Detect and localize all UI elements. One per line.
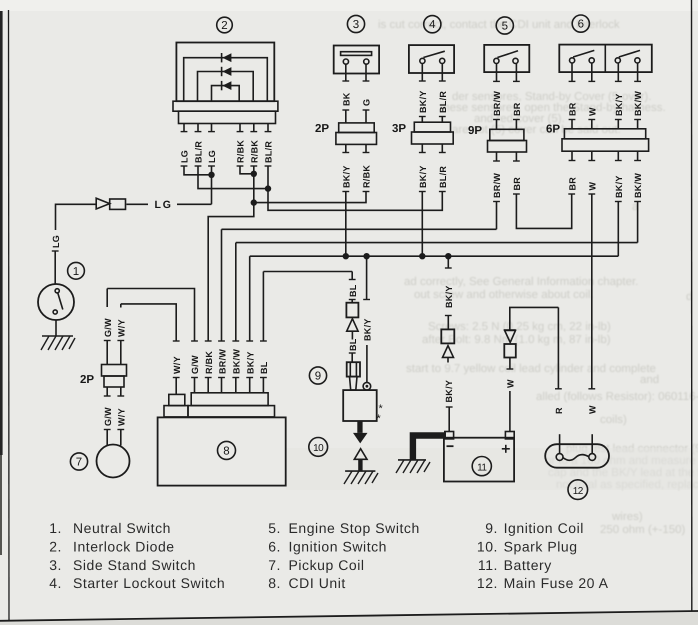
pin G below box (363, 64, 370, 81)
junction BK/Y battery branch (445, 253, 451, 259)
wire pin6 BL/R down, right to 3P connector (265, 166, 443, 210)
pin G/W below 2P (104, 387, 111, 396)
diode loop 3 wire (212, 86, 240, 102)
wire BR to 6P (569, 120, 576, 129)
wire BL/R stub to bus (tick) (439, 191, 446, 193)
svg-text:W: W (587, 107, 597, 116)
wire pin4 R/BK down-right to pin5 (237, 166, 254, 174)
svg-text:Neutral Switch: Neutral Switch (73, 520, 171, 536)
ignition coil body (343, 390, 377, 421)
svg-text:Main Fuse 20 A: Main Fuse 20 A (504, 575, 609, 591)
pin W below 6P (588, 151, 595, 160)
junction pin5 R/BK bus (251, 199, 257, 205)
arrow symbol on LG wire (96, 198, 110, 209)
svg-text:8: 8 (223, 446, 229, 458)
neutral switch contact bottom (53, 310, 57, 314)
connector box on BL (346, 303, 358, 318)
svg-text:12: 12 (573, 486, 584, 497)
svg-text:6: 6 (578, 19, 584, 31)
connector 6P lower (562, 139, 649, 151)
pin BKY below 6P (615, 151, 622, 160)
bus BK/W CDI pin5 to 6P (236, 242, 638, 244)
wire switch to ground (55, 320, 57, 336)
svg-text:R/BK: R/BK (362, 165, 372, 188)
CDI small connector base (164, 406, 188, 417)
connector 6P upper (564, 129, 645, 139)
battery minus post (445, 432, 454, 439)
pin BK below box (342, 64, 349, 81)
wire LG text to box (126, 203, 148, 205)
svg-text:10.: 10. (477, 539, 498, 555)
ign blade right cell (619, 50, 640, 57)
svg-text:4.: 4. (49, 575, 62, 591)
starter lockout box (409, 45, 454, 73)
svg-text:2: 2 (221, 20, 227, 32)
svg-text:Starter Lockout Switch: Starter Lockout Switch (73, 575, 225, 591)
plug ground stub (358, 459, 362, 471)
ign contact 1 (570, 58, 575, 63)
ign contact 3 (615, 58, 620, 63)
legend column 3 (477, 520, 609, 591)
wire BK/Y to connector box (445, 316, 452, 330)
diode pin 1 stub (181, 124, 188, 132)
side stand contact bar (341, 52, 372, 56)
connector 3P lower (412, 132, 454, 144)
wire pin1 LG down-right to pin3 (181, 166, 212, 175)
connector 3P upper (414, 122, 450, 132)
svg-text:R/BK: R/BK (204, 351, 214, 374)
neutral switch contact top (55, 289, 59, 293)
wire BL down from bus (349, 272, 356, 280)
connector box on LG wire (110, 199, 126, 209)
svg-text:start to 9.7 yellow coil lead: start to 9.7 yellow coil lead cylinder a… (406, 363, 656, 375)
ignition switch box (559, 45, 652, 73)
svg-text:BL: BL (259, 361, 269, 374)
ignition switch divider (604, 45, 606, 73)
svg-text:W/Y: W/Y (116, 319, 126, 337)
neutral switch body circle (38, 284, 74, 320)
connector 9P upper (490, 129, 524, 140)
connector 2P lower (336, 133, 377, 145)
svg-text:BR: BR (512, 102, 522, 116)
border frame bottom line (0, 611, 698, 621)
pin BKW below 6P (634, 151, 641, 160)
diode pin 3 stub (208, 124, 215, 132)
engine stop blade (497, 51, 518, 58)
circled ref 8 (218, 441, 236, 459)
wire LG from pin3 left to arrow symbol (177, 203, 212, 205)
svg-text:G/W: G/W (103, 407, 113, 426)
interlock diode connector bar lower (179, 111, 276, 123)
pin W/Y below 2P (117, 387, 124, 396)
svg-text:BK/Y: BK/Y (363, 318, 373, 341)
diode pin 5 stub (250, 124, 257, 132)
diode on BK/Y (443, 346, 454, 358)
svg-text:Pickup Coil: Pickup Coil (289, 557, 365, 573)
circled ref 12 (568, 480, 588, 500)
pin BKY below box (615, 63, 622, 81)
svg-text:250 ohm (+-150): 250 ohm (+-150) (600, 524, 686, 536)
svg-text:wires): wires) (611, 511, 643, 523)
CDI pin ticks above labels (173, 340, 267, 342)
diode on BL wire (347, 319, 358, 340)
svg-text:3P: 3P (392, 123, 406, 135)
junction pin1/pin3 (208, 172, 214, 178)
diode pin 2 stub (195, 124, 202, 132)
starter lockout contact right (440, 58, 445, 63)
svg-text:BK/W: BK/W (633, 91, 643, 116)
svg-text:4: 4 (429, 19, 436, 31)
circled ref 11 (472, 457, 491, 476)
svg-text:BK: BK (341, 92, 351, 106)
svg-text:7: 7 (76, 457, 82, 469)
wire W/Y horizontal to CDI pin1 (121, 304, 176, 341)
svg-text:LG: LG (51, 235, 61, 248)
diode on W (points down) (504, 330, 516, 342)
legend column 2 (268, 520, 420, 591)
svg-text:and: and (640, 374, 659, 386)
wire BK/Y down corner left (bus to CDI) (615, 202, 622, 257)
circled ref 9 (309, 367, 326, 384)
svg-text:12.: 12. (477, 575, 498, 591)
svg-text:1: 1 (73, 266, 79, 278)
svg-text:LG: LG (155, 199, 173, 211)
svg-text:BK/Y: BK/Y (418, 90, 428, 113)
wire pin2 BL/R down-right to pin6 (195, 166, 268, 189)
wire BL/R to 3P (439, 117, 446, 123)
svg-text:ad correctly, See General Info: ad correctly, See General Information ch… (404, 276, 638, 288)
side stand terminal left (343, 59, 348, 64)
svg-text:G: G (362, 99, 372, 106)
wire G/W down to label (106, 289, 108, 308)
wire CDI pin7 vertical (262, 272, 264, 342)
interlock diode outer box (176, 43, 274, 102)
circled ref 4 (424, 16, 441, 33)
junction BK/Y sidestand on bus (343, 253, 349, 259)
scan page left dark edge (0, 0, 3, 455)
svg-text:BL/R: BL/R (438, 91, 448, 113)
svg-text:alled (follows Resistor): 0601: alled (follows Resistor): 060116-20 (536, 391, 698, 403)
wire BR/W to 9P (493, 120, 500, 130)
pin R/BK below 2P (363, 144, 370, 152)
wire W/Y to coil (117, 430, 124, 446)
svg-text:R/BK: R/BK (236, 140, 246, 163)
svg-text:BK/Y: BK/Y (614, 175, 624, 198)
circled ref 1 (68, 262, 85, 279)
circled ref 5 (496, 17, 513, 34)
svg-text:7.: 7. (268, 557, 281, 573)
junction BK/Y lockout on bus (419, 253, 425, 259)
svg-text:3: 3 (353, 19, 359, 31)
svg-text:BL: BL (348, 338, 358, 351)
wire pin3 LG down (208, 166, 215, 204)
engine stop contact left (494, 58, 499, 63)
ign contact 4 (635, 58, 640, 63)
wire BL to plug cap (349, 353, 356, 362)
svg-text:CDI Unit: CDI Unit (289, 575, 346, 591)
interlock diode connector bar upper (173, 101, 278, 111)
svg-text:BK/Y: BK/Y (614, 93, 624, 116)
svg-text:Interlock Diode: Interlock Diode (73, 539, 175, 555)
connector 2P upper (339, 123, 375, 133)
svg-text:5: 5 (502, 21, 508, 33)
pin BR below box (513, 64, 520, 82)
border frame left line (8, 10, 11, 620)
wire BK/W down corner left (bus to CDI) (634, 202, 641, 243)
circled ref 10 (309, 438, 328, 457)
battery box (444, 438, 514, 482)
connector 2P pickup upper (102, 365, 127, 377)
diode pin 6 stub (265, 124, 272, 132)
side stand terminal right (364, 59, 369, 64)
wire BK/Y to 3P (419, 117, 426, 123)
svg-text:BR/W: BR/W (492, 173, 502, 198)
starter lockout blade (423, 51, 444, 57)
pin BL/R below box (439, 64, 446, 81)
svg-text:*: * (377, 413, 382, 425)
svg-text:BK/W: BK/W (231, 349, 241, 374)
wire BKW to 6P (634, 120, 641, 129)
pin BK/Y below 3P (419, 144, 426, 153)
wire BR to 9P (513, 120, 520, 130)
svg-text:W/Y: W/Y (116, 408, 126, 426)
diode D3 (222, 81, 232, 90)
starter lockout contact left (420, 58, 425, 63)
pin BR below 9P (513, 152, 520, 161)
faint lighter band top of page (0, 0, 698, 11)
ground battery (396, 460, 430, 473)
wire BK/Y from bus to coil terminal (363, 256, 370, 299)
wire R/BK down then left to diode junction (254, 192, 370, 203)
wire BKY to 6P (615, 120, 622, 129)
svg-text:6P: 6P (546, 124, 560, 136)
svg-text:BR: BR (568, 177, 578, 191)
svg-text:6.: 6. (268, 539, 281, 555)
svg-text:8.: 8. (268, 575, 281, 591)
bus BL CDI pin7 to ignition coil (263, 271, 352, 273)
CDI main connector base (188, 406, 275, 417)
junction pin4/pin5 (251, 171, 257, 177)
coil HT stub (357, 421, 362, 433)
border frame right line (691, 0, 693, 611)
wire BL to connector box (349, 300, 356, 303)
ign contact 2 (589, 58, 594, 63)
connector box on BK/Y (441, 329, 454, 343)
svg-text:BR: BR (512, 177, 522, 191)
wire BK/Y down to bus (342, 192, 349, 257)
ground neutral switch (41, 336, 75, 350)
pin BL/R below 3P (439, 144, 446, 153)
svg-text:W: W (587, 182, 597, 191)
wire W to 6P (588, 120, 595, 129)
svg-text:9.: 9. (485, 520, 498, 536)
legend column 1 (49, 520, 225, 591)
svg-text:11.: 11. (478, 557, 498, 573)
connector box on W (504, 344, 516, 358)
svg-text:2.: 2. (49, 539, 62, 555)
svg-text:W: W (588, 405, 598, 414)
wire W/Y to 2P (117, 341, 124, 365)
svg-text:5.: 5. (268, 520, 281, 536)
diode D1 (222, 53, 232, 62)
circled ref 2 (217, 17, 233, 33)
circled ref 7 (70, 453, 87, 470)
svg-text:2P: 2P (80, 374, 94, 386)
pin W below box (588, 63, 595, 81)
wire W long down to fuse (588, 194, 595, 389)
plug cap double box (347, 362, 360, 376)
wire CDI pin5 vertical (235, 243, 237, 341)
svg-text:1.: 1. (49, 520, 62, 536)
wire BK/Y into battery minus post (446, 407, 453, 432)
engine stop contact right (513, 58, 518, 63)
wire BK/Y down from bus (445, 256, 452, 268)
svg-text:BK/Y: BK/Y (245, 351, 255, 374)
battery ground thick wire (413, 436, 446, 460)
svg-text:G/W: G/W (103, 318, 113, 337)
battery minus sign (447, 445, 454, 447)
svg-text:Battery: Battery (504, 557, 552, 573)
svg-text:9P: 9P (468, 125, 482, 137)
pin BR/W below 9P (493, 152, 500, 161)
wire G/W to coil (104, 430, 111, 446)
wire G to 2P (363, 110, 370, 123)
wire BR/W down to BRW bus corner (493, 202, 500, 230)
side stand switch box (334, 46, 379, 74)
fuse terminal left (556, 454, 563, 461)
svg-text:BK/Y: BK/Y (444, 285, 454, 308)
svg-text:10: 10 (313, 443, 324, 454)
battery plus sign (502, 445, 510, 453)
faint gray band lower CDI area (286, 448, 698, 490)
fuse element squiggle (563, 455, 589, 461)
wire BK/Y down to bus junction (419, 192, 426, 257)
svg-text:9: 9 (315, 371, 321, 383)
diode loop 1 wire (184, 58, 268, 101)
wire BK to 2P (342, 110, 349, 123)
stub into coil (350, 377, 358, 391)
svg-text:out screw and otherwise about: out screw and otherwise about coil. (414, 289, 594, 301)
svg-text:Screws: 2.5 N (0.25 kg cm, 22: Screws: 2.5 N (0.25 kg cm, 22 in-lb) (428, 321, 611, 333)
svg-text:BL/R: BL/R (194, 141, 204, 163)
plug electrode triangle up (354, 449, 367, 460)
svg-text:G/W: G/W (190, 355, 200, 374)
connector 2P pickup lower (104, 376, 124, 387)
wire W into fuse (591, 434, 593, 453)
pin BR/W below box (493, 64, 500, 82)
svg-text:BR/W: BR/W (217, 349, 227, 374)
junction BK/Y coil on bus (363, 253, 369, 259)
svg-text:Ignition Coil: Ignition Coil (504, 520, 584, 536)
svg-text:BK/Y: BK/Y (444, 380, 454, 403)
diode pin 4 stub (237, 124, 244, 132)
svg-text:R: R (554, 407, 564, 414)
svg-text:BK/W: BK/W (633, 173, 643, 198)
svg-text:BL/R: BL/R (264, 141, 274, 163)
wire pin5 R/BK down, jog left, down to CDI pin3 (208, 166, 257, 341)
wire R into fuse (559, 434, 561, 453)
wire W/Y down to label (120, 304, 122, 308)
CDI main connector (191, 393, 268, 406)
wire G/W horizontal to CDI pin2 (107, 289, 194, 342)
wire R down to fuse (555, 307, 562, 388)
svg-text:Ignition Switch: Ignition Switch (289, 539, 388, 555)
HT electrode triangle down (353, 433, 368, 444)
wire LG left and down to neutral switch (56, 204, 97, 230)
diode D2 (222, 67, 232, 76)
svg-text:BK/Y: BK/Y (418, 165, 428, 188)
diode loop 2 wire (198, 72, 254, 102)
pin BR below 6P (569, 151, 576, 160)
wire W from corner down (510, 307, 559, 330)
engine stop box (484, 45, 529, 72)
svg-text:Engine Stop Switch: Engine Stop Switch (289, 520, 420, 536)
fuse terminal right (589, 454, 596, 461)
neutral switch blade (58, 293, 63, 310)
wire W into battery plus post (509, 391, 511, 432)
svg-text:2P: 2P (315, 123, 329, 135)
svg-text:W: W (506, 379, 516, 388)
pickup coil body circle (97, 445, 130, 478)
svg-text:Spark Plug: Spark Plug (504, 539, 578, 555)
circled ref 6 (572, 15, 589, 32)
svg-text:BR/W: BR/W (492, 91, 502, 116)
svg-text:LG: LG (180, 150, 190, 163)
svg-text:3.: 3. (49, 557, 62, 573)
connector 9P lower (488, 141, 527, 153)
pin BK/Y below 2P (342, 144, 349, 152)
svg-text:BR: BR (568, 102, 578, 116)
svg-text:BL/R: BL/R (438, 166, 448, 188)
svg-text:R/BK: R/BK (249, 140, 259, 163)
circled ref 3 (347, 15, 364, 32)
svg-text:Side Stand Switch: Side Stand Switch (73, 557, 196, 573)
scan dark blob top-right corner (691, 0, 698, 6)
wire CDI pin4 vertical (221, 229, 223, 341)
CDI small connector (169, 394, 185, 405)
bus BR/W CDI pin4 to 9P (222, 228, 497, 230)
wire BR down right up link to ignition switch BR (513, 194, 575, 228)
svg-text:W/Y: W/Y (172, 356, 182, 374)
pin BKW below box (634, 63, 641, 81)
svg-text:LG: LG (207, 150, 217, 163)
wire G/W to 2P (104, 341, 111, 365)
svg-text:BK/Y: BK/Y (341, 165, 351, 188)
ground spark plug (344, 471, 378, 484)
main fuse body (545, 444, 609, 468)
wire BK/Y label to terminal (366, 345, 368, 382)
battery plus post (505, 432, 514, 439)
wire CDI pin6 vertical (249, 256, 251, 341)
CDI unit box (158, 417, 286, 485)
svg-text:BL: BL (348, 284, 358, 297)
wire W below box (507, 358, 514, 370)
svg-text:coils): coils) (600, 414, 627, 426)
ign blade left cell (573, 50, 594, 57)
bus BK/Y CDI pin6 to 6P (250, 255, 619, 257)
wire LG label to switch body (52, 251, 59, 284)
pin BK/Y below box (419, 64, 426, 81)
CDI pins into connector (173, 378, 267, 395)
pin BR below box (569, 63, 576, 81)
junction pin2/pin6 (265, 185, 271, 191)
coil terminal ring (363, 382, 371, 390)
wire + label BK/Y to battery (447, 357, 449, 362)
svg-text:11: 11 (477, 462, 487, 473)
